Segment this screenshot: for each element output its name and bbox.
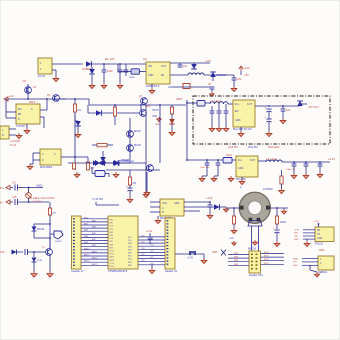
wire rail drop left — [5, 99, 7, 112]
node rail j7 — [159, 104, 161, 106]
capacitor C2b — [124, 70, 129, 72]
wire j7 gnd link — [310, 270, 317, 272]
wire R2 link — [75, 156, 88, 158]
svg-text:PB5: PB5 — [128, 243, 132, 245]
wire d16 gnd — [33, 262, 35, 271]
ground c14 — [291, 173, 297, 179]
svg-text:100n: 100n — [107, 69, 113, 73]
wire J5 out — [175, 253, 204, 255]
svg-text:OUT: OUT — [247, 103, 253, 106]
transistor Q3 — [141, 98, 148, 105]
wire boxcap2 stub — [225, 104, 227, 111]
wire IC2 left pin2 — [6, 117, 16, 119]
svg-text:PC3: PC3 — [128, 249, 132, 251]
wire ring left — [226, 207, 240, 209]
ground u5 — [155, 218, 161, 224]
svg-text:GND: GND — [238, 167, 244, 170]
wires into J7 — [302, 259, 318, 266]
svg-text:PA4: PA4 — [110, 231, 113, 234]
wire c14 stub — [293, 162, 295, 164]
resistor R7 — [48, 208, 51, 215]
svg-text:10uF 25V: 10uF 25V — [228, 147, 238, 149]
schottky D11 box — [197, 101, 205, 107]
wire C1 stub — [103, 64, 105, 70]
svg-text:PB2: PB2 — [128, 253, 132, 255]
ground under led — [169, 130, 175, 136]
node out j2 — [282, 105, 284, 107]
wire zener d16 stub — [33, 252, 35, 257]
wire J1 pin2 down — [55, 70, 57, 76]
wire R2 top — [87, 157, 89, 162]
wire L2 right — [282, 161, 330, 163]
node A junction — [103, 63, 105, 65]
ground r10 b — [232, 241, 236, 245]
svg-text:+5V: +5V — [244, 73, 249, 77]
svg-text:IC1: IC1 — [143, 57, 148, 61]
wire c23 down — [149, 239, 151, 244]
wires J3 to MCU — [81, 219, 108, 265]
zener D3 — [191, 64, 197, 69]
wire feedback row — [173, 86, 212, 88]
wire prot row — [68, 162, 92, 164]
svg-text:+3.3V: +3.3V — [313, 221, 319, 223]
transistor Q1 — [25, 87, 32, 94]
ground under IC1 — [149, 88, 155, 94]
led D10 — [169, 119, 175, 124]
wire y1 link — [96, 204, 119, 206]
wire FB1 to IC1 — [140, 71, 147, 73]
wire col75 mid — [74, 114, 76, 170]
wire ring gnd stub — [283, 208, 285, 209]
zener D15 series — [12, 250, 17, 255]
wire r12 up — [281, 170, 283, 176]
svg-text:PC0: PC0 — [128, 259, 132, 261]
ground c16 — [317, 172, 323, 178]
ground r8 — [74, 172, 80, 178]
svg-text:Y1 32.768: Y1 32.768 — [92, 199, 103, 201]
svg-text:TNY267: TNY267 — [16, 124, 26, 128]
ground under C11 — [280, 118, 286, 124]
wire IC4 out — [255, 105, 300, 107]
wire c13 stub — [217, 160, 219, 163]
wire C11 down — [282, 111, 284, 118]
port arrow +5V — [4, 97, 8, 101]
svg-text:AIN0: AIN0 — [84, 216, 88, 219]
wire R3 left — [92, 144, 97, 146]
svg-text:Header 16: Header 16 — [165, 269, 178, 273]
svg-text:C: C — [54, 153, 56, 156]
svg-text:L1 4.7uH: L1 4.7uH — [210, 99, 221, 103]
svg-text:TX3: TX3 — [150, 245, 153, 247]
capacitor C12 — [205, 163, 210, 165]
svg-text:AIN6: AIN6 — [84, 235, 88, 238]
svg-text:GND1: GND1 — [36, 185, 43, 188]
svg-text:PD4: PD4 — [128, 246, 132, 248]
ground under IC2 — [24, 128, 30, 134]
J6 left labels — [234, 253, 238, 266]
resistor R FB red box — [183, 84, 190, 89]
wire y1 stub — [95, 202, 97, 205]
wire r10 up — [233, 208, 235, 216]
capacitor C6 — [210, 111, 215, 113]
ground under U3 left — [27, 164, 33, 170]
svg-text:100n 22u: 100n 22u — [286, 169, 296, 171]
J7 pin labels — [293, 258, 299, 267]
wire c15 down — [305, 166, 307, 173]
wires into U8 — [303, 230, 315, 239]
wire c17 to right — [18, 187, 44, 189]
svg-text:OUT: OUT — [250, 159, 256, 162]
ground under D2 — [89, 83, 95, 89]
wire IC2 right pin2 — [40, 116, 44, 118]
regulator IC1 — [146, 62, 170, 84]
wire IC2 right up — [46, 99, 48, 110]
svg-text:+3.3V: +3.3V — [328, 157, 335, 161]
svg-text:AIN12: AIN12 — [84, 254, 89, 257]
svg-text:KEY3: KEY3 — [264, 263, 269, 265]
svg-text:PB13: PB13 — [110, 260, 115, 262]
resistor R3 horizontal — [97, 144, 107, 147]
resistor R10 — [232, 216, 235, 224]
ground under C10 — [266, 131, 272, 137]
wire rail B — [89, 104, 186, 106]
wire IC1 out lower — [170, 74, 188, 76]
ground q8 — [144, 190, 150, 196]
svg-text:GND: GND — [148, 74, 154, 77]
wire D5 to ground — [77, 126, 79, 132]
svg-text:PD11: PD11 — [110, 254, 115, 256]
svg-text:VDD: VDD — [152, 115, 157, 118]
svg-text:GND: GND — [293, 265, 298, 267]
wire C2b stub — [125, 64, 127, 70]
mcu pin labels — [110, 219, 115, 269]
wire vcc stub — [240, 71, 242, 75]
port arrow in1 — [6, 185, 10, 189]
wire j7 gnd — [309, 265, 311, 270]
mcu U4 — [108, 216, 138, 269]
svg-text:C17: C17 — [12, 182, 17, 185]
wire boxcap0 down — [211, 113, 213, 126]
wire r9 down — [129, 185, 131, 188]
wire R4 bot — [114, 116, 116, 125]
ground under C5 — [210, 92, 214, 96]
svg-text:100R: 100R — [280, 220, 286, 224]
connector J1 — [38, 58, 52, 74]
diode D4 — [210, 72, 216, 77]
svg-text:TX0: TX0 — [141, 235, 144, 237]
node in2 j — [28, 201, 30, 203]
wire ring bot1 — [251, 226, 253, 251]
node conv2 o1 — [293, 161, 295, 163]
buck module IC5 — [236, 156, 258, 177]
svg-text:PD6: PD6 — [128, 265, 132, 267]
svg-text:SS34: SS34 — [226, 155, 232, 157]
wire mcu vcc stub — [149, 233, 151, 237]
inductor L0 — [188, 73, 204, 75]
resistor R11 — [275, 216, 278, 224]
svg-text:24-060M: 24-060M — [263, 188, 272, 191]
wire u5 out2 — [184, 206, 214, 208]
svg-text:SW0: SW0 — [234, 253, 238, 255]
wire prot right — [118, 162, 146, 164]
svg-text:+5V: +5V — [22, 80, 27, 83]
wire U3 pin2 — [33, 159, 40, 161]
wire u5 gnd stub — [157, 216, 159, 218]
wire C4 stub — [233, 75, 235, 78]
capacitor C9 — [266, 109, 271, 112]
svg-text:PD1: PD1 — [128, 256, 132, 258]
resistor R12 — [280, 176, 283, 184]
svg-text:TX6: TX6 — [141, 254, 144, 256]
node loop bot — [49, 237, 51, 239]
wire C2b join — [125, 72, 127, 76]
svg-text:+3.3V: +3.3V — [206, 197, 213, 200]
ground bottomleft 2 — [47, 271, 53, 277]
diode D1 — [86, 61, 91, 67]
wire c16 stub — [319, 162, 321, 164]
svg-text:SWD: SWD — [319, 250, 325, 252]
svg-text:RS232: RS232 — [315, 242, 323, 246]
svg-text:GND: GND — [317, 237, 323, 240]
toroid base — [248, 221, 262, 227]
toroid T1 hole — [248, 201, 262, 215]
svg-text:DC 12V: DC 12V — [105, 57, 115, 61]
svg-text:+5V: +5V — [146, 105, 151, 108]
svg-text:BP: BP — [18, 113, 22, 116]
wire D6 up — [102, 151, 104, 157]
wire C9 down — [268, 112, 270, 119]
resistor R9 — [128, 177, 131, 185]
tvs pair D17 — [93, 161, 103, 166]
capacitor C23 — [148, 237, 153, 239]
svg-text:PD3: PD3 — [110, 229, 114, 231]
wire loop — [34, 224, 50, 238]
svg-text:AIN3: AIN3 — [92, 226, 96, 229]
wire IC2 gnd stub — [26, 124, 28, 128]
ground c20 — [127, 197, 133, 203]
node bot j — [33, 251, 35, 253]
wire U3 ground link — [30, 163, 33, 165]
node loop top — [49, 223, 51, 225]
wire u8 gnd — [306, 239, 308, 241]
ground mcu — [149, 268, 155, 274]
svg-text:+5V OUT: +5V OUT — [308, 105, 319, 109]
capacitor C14 — [292, 164, 297, 166]
node B junction — [119, 63, 121, 65]
wire J1 pin2 stub — [52, 69, 56, 71]
port arrow in2 — [6, 200, 10, 204]
wire mid row — [88, 112, 140, 114]
node conv2 j1 — [186, 159, 188, 161]
capacitor C15 — [304, 164, 309, 166]
svg-text:SW2: SW2 — [234, 260, 238, 262]
ground under C1 — [101, 83, 107, 89]
ground c21 — [207, 213, 213, 219]
wire Q5 down — [129, 158, 131, 163]
capacitor C3 — [178, 65, 183, 67]
svg-text:PC2: PC2 — [110, 226, 114, 228]
transistor Q8 — [147, 165, 154, 172]
wire IC2 pin2 down — [43, 117, 45, 128]
power flag +5V — [239, 66, 243, 69]
wire boxcap1 down — [218, 113, 220, 126]
wire ring bot2 — [258, 226, 260, 251]
svg-text:PA12: PA12 — [110, 256, 114, 259]
svg-text:22u: 22u — [237, 77, 242, 81]
U8 pin labels — [294, 230, 300, 241]
diode D19 — [214, 204, 219, 210]
wire c16 down — [319, 166, 321, 172]
svg-text:12Vi: 12Vi — [0, 251, 5, 254]
node C junction — [212, 74, 214, 76]
wire IC5 out — [258, 160, 266, 162]
wire C2 to ground — [119, 72, 121, 83]
node conv2 j2 — [206, 159, 208, 161]
svg-text:N: N — [2, 134, 4, 137]
svg-text:MOC3063: MOC3063 — [40, 165, 52, 169]
toroid pad left — [240, 206, 244, 210]
header J3 pins — [73, 218, 75, 266]
node u5 out j — [209, 201, 211, 203]
wire xtal right — [105, 173, 109, 175]
svg-text:EN: EN — [18, 108, 22, 111]
svg-text:+C10: +C10 — [244, 66, 251, 70]
wire bat to conv2 — [187, 159, 223, 161]
wire rail to led col — [171, 105, 173, 107]
ground under J1 — [53, 76, 59, 82]
tvs D18 — [113, 161, 118, 166]
wire D1 to FB1 — [92, 63, 128, 65]
svg-text:AIN15: AIN15 — [92, 263, 97, 266]
svg-text:4148: 4148 — [37, 260, 43, 262]
wire out right — [300, 103, 307, 105]
wire Q4Q5 link — [129, 118, 131, 158]
wire IC5 gnd stub — [241, 177, 243, 179]
wire q6 link — [50, 233, 54, 235]
wire R1 to D5 — [74, 112, 76, 121]
svg-text:+C2: +C2 — [9, 95, 14, 98]
toroid T1 outer — [239, 192, 270, 223]
J6 right labels — [264, 252, 269, 265]
wire col75 down — [75, 120, 78, 122]
transistor Q3b — [140, 110, 147, 117]
svg-text:AIN4: AIN4 — [84, 229, 88, 232]
wire zener row — [92, 162, 130, 164]
wire Q2 junction — [59, 98, 66, 100]
svg-text:TX7: TX7 — [150, 257, 153, 259]
node rail j2 — [46, 98, 48, 100]
zener D14 — [32, 227, 37, 232]
svg-text:SMBJ: SMBJ — [129, 77, 135, 79]
svg-text:GND: GND — [168, 86, 174, 89]
wire rv1 up — [28, 188, 30, 193]
wire d19 right — [220, 206, 226, 208]
capacitor C1 — [102, 70, 107, 72]
svg-text:+BAT: +BAT — [176, 97, 183, 101]
svg-text:PB1: PB1 — [110, 223, 114, 225]
svg-text:SWIM: SWIM — [293, 258, 299, 260]
capacitor C4 — [232, 78, 237, 80]
wire u5 pin1 — [150, 201, 160, 203]
resistor R2 — [86, 162, 89, 170]
inductor L2 — [266, 160, 282, 162]
wire mcu gnd stub — [151, 265, 153, 268]
connector J7 — [318, 256, 334, 270]
capacitor C5 — [210, 87, 215, 89]
wire IC4 gnd stub — [240, 127, 242, 131]
node u8 top — [318, 223, 320, 225]
ground conv2 extra — [228, 176, 234, 182]
diode D12 — [297, 101, 303, 106]
node rail j1 — [27, 98, 29, 100]
wire xtal left up — [91, 167, 93, 174]
svg-text:OUT 5V: OUT 5V — [33, 202, 42, 204]
ground d19 — [223, 207, 228, 212]
svg-text:GND: GND — [212, 252, 217, 254]
svg-text:+C3 400V: +C3 400V — [10, 141, 21, 143]
wire r9 top — [129, 170, 131, 177]
ground mid stub — [157, 117, 161, 121]
header J5 pins — [167, 220, 169, 265]
capacitor C11 — [281, 109, 286, 111]
wire boxcap0 stub — [211, 106, 213, 111]
MCU-J5 wire labels — [141, 235, 153, 265]
wire zener D3 stub — [193, 63, 195, 64]
node conv2 o3 — [319, 161, 321, 163]
svg-text:PD15: PD15 — [110, 266, 115, 268]
ground ring bottom — [252, 240, 257, 245]
node rail j6 — [140, 104, 142, 106]
wires MCU to J5 — [138, 237, 165, 265]
svg-text:GND: GND — [235, 119, 241, 122]
svg-text:AC adapter input 12V/1A: AC adapter input 12V/1A — [29, 197, 55, 200]
wire C5 down — [211, 89, 213, 92]
wire rail link — [88, 99, 90, 105]
ground bottomleft 1 — [31, 271, 37, 277]
svg-text:TX: TX — [317, 233, 320, 236]
svg-text:+3.3V: +3.3V — [146, 230, 153, 233]
wire Q1 up — [27, 84, 29, 99]
ground c13 — [211, 176, 217, 182]
wire led link — [171, 114, 173, 119]
svg-text:PA0: PA0 — [110, 219, 113, 222]
optocoupler U3 — [40, 149, 61, 165]
wire col146 — [145, 105, 147, 192]
wire jp1 gnd stub — [203, 254, 205, 258]
tvs D9 — [114, 160, 119, 166]
wire lower to bead — [118, 71, 131, 73]
resistor R4 — [113, 107, 116, 116]
wire r11 down — [276, 224, 278, 229]
wire U3 pin1 — [33, 152, 40, 154]
ground xtal — [113, 172, 119, 178]
header J6 pins — [251, 254, 258, 270]
capacitor C17 series — [15, 185, 18, 191]
wire c12 down — [206, 165, 208, 176]
wire L0 to D4 — [204, 74, 234, 76]
capacitor C20 — [127, 188, 132, 191]
svg-text:AIN7: AIN7 — [92, 238, 96, 241]
ground c12 — [199, 176, 205, 182]
svg-text:P6SMB15CA: P6SMB15CA — [120, 160, 134, 163]
wire IC2 left pin2 drop — [5, 112, 7, 118]
wire Q3 up — [140, 105, 142, 110]
wire loop bottom — [34, 237, 50, 239]
wire r12 down — [281, 184, 283, 188]
svg-text:F1 1A: F1 1A — [10, 144, 17, 147]
svg-text:GND: GND — [155, 124, 160, 126]
svg-text:R7: R7 — [53, 211, 57, 215]
